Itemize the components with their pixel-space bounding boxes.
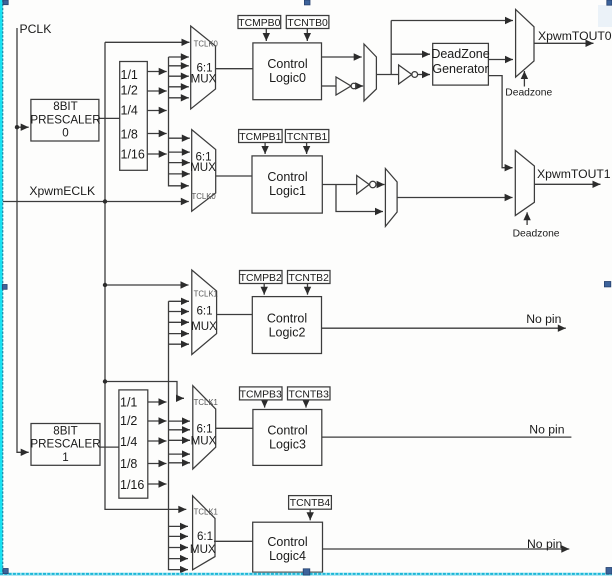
wire PCLK branch to prescaler0 input <box>17 126 29 128</box>
wire divider2 out 1/8 <box>148 463 167 465</box>
wire divider1 out 1/2 <box>147 90 166 92</box>
selection border left cyan band <box>0 0 3 576</box>
wire XpwmTOUT0 output arrow <box>534 42 594 44</box>
inverter C ch1 triangle <box>357 176 370 195</box>
svg-text:Logic2: Logic2 <box>269 326 306 340</box>
svg-text:1/8: 1/8 <box>120 457 137 471</box>
wire MUX1 output to Control Logic1 <box>216 175 252 177</box>
wire bus1 stub to MUX1 in1 <box>169 137 190 139</box>
svg-text:No pin: No pin <box>529 422 564 436</box>
svg-text:1/16: 1/16 <box>120 478 144 492</box>
wire DeadZone out2 down to TOUT1 mux input1 <box>488 76 512 168</box>
wire ch0 mux output junction <box>376 74 398 76</box>
svg-text:Logic3: Logic3 <box>269 438 306 452</box>
wire bus2 stub to MUX4 in4 <box>169 558 189 560</box>
svg-text:Control: Control <box>267 312 307 326</box>
svg-text:1/4: 1/4 <box>121 104 138 118</box>
svg-text:1/1: 1/1 <box>120 396 137 410</box>
svg-text:No pin: No pin <box>526 312 561 326</box>
svg-text:Deadzone: Deadzone <box>513 228 560 239</box>
svg-text:TCLK1: TCLK1 <box>194 289 218 298</box>
wire TCMPB0 arrow into Logic0 <box>265 29 267 42</box>
wire XpwmECLK rail down to MUX4 TCLK <box>105 42 186 509</box>
handle top-middle <box>304 0 310 5</box>
wire ch0 branch to DeadZone input1 <box>391 53 430 55</box>
mux ch1 2:1 select <box>385 169 397 227</box>
handle top-left <box>3 0 8 5</box>
register TCNTB1 <box>285 130 328 143</box>
handle top-right <box>607 0 612 5</box>
wire ch1 direct path to 2:1 mux bottom input <box>336 185 383 212</box>
mux MUX4 6:1 <box>193 496 215 570</box>
block Control Logic4 <box>253 522 323 572</box>
selection border bottom cyan dashes <box>0 573 612 575</box>
svg-text:MUX: MUX <box>191 73 217 86</box>
wire bus2 stub to MUX3 in4 <box>169 453 191 455</box>
svg-text:0: 0 <box>62 127 68 140</box>
mux ch0 2:1 select <box>364 44 376 101</box>
wire ECLK branch to MUX2 TCLK <box>105 284 189 286</box>
wire XpwmTOUT1 output arrow <box>534 183 600 185</box>
wire bus2 stub to MUX2 in3 <box>169 321 190 323</box>
selection border left dark dashes <box>2 0 4 576</box>
mux MUX2 6:1 <box>192 270 217 355</box>
block Control Logic3 <box>253 410 322 466</box>
handle right-middle <box>604 282 610 287</box>
svg-text:MUX: MUX <box>191 435 217 448</box>
wire TCNTB3 arrow into Logic3 <box>305 400 307 408</box>
inverter C bubble <box>370 181 376 187</box>
block 8BIT PRESCALER 1 <box>31 424 100 466</box>
wire prescaler0 output to divider1 <box>98 117 119 119</box>
wire bus2 stub to MUX2 in4 <box>169 333 190 335</box>
mux MUX1 6:1 <box>192 130 216 212</box>
block Control Logic2 <box>252 297 321 354</box>
svg-text:TCLK0: TCLK0 <box>192 192 217 201</box>
register TCNTB3 <box>288 387 331 400</box>
wire MUX2 output to Control Logic2 <box>217 314 253 316</box>
register TCNTB4 <box>289 496 332 510</box>
handle left-middle <box>2 285 7 290</box>
decorative ghost top-right (jpeg halo) <box>598 5 612 27</box>
svg-text:TCNTB1: TCNTB1 <box>287 132 328 143</box>
wire bus1 stub to MUX0 in1 <box>169 56 189 58</box>
svg-text:MUX: MUX <box>190 543 216 556</box>
wire bus2 stub to MUX3 in5 <box>169 462 191 464</box>
wire divider2 out 1/16 <box>148 483 167 485</box>
svg-text:PRESCALER: PRESCALER <box>30 113 100 126</box>
wire bus1 stub to MUX1 in3 <box>169 162 190 164</box>
wire bus2 stub to MUX2 in2 <box>169 311 190 313</box>
svg-text:TCNTB0: TCNTB0 <box>287 18 328 29</box>
wire divider2 out 1/4 <box>148 440 167 442</box>
wire bus2 stub to MUX2 in5 <box>169 343 190 345</box>
wire divider2 out 1/1 <box>148 401 167 403</box>
selection border bottom light band <box>0 573 612 576</box>
svg-text:TCMPB1: TCMPB1 <box>239 132 281 143</box>
register TCMPB0 <box>238 16 281 29</box>
svg-text:1/4: 1/4 <box>120 435 137 449</box>
wire TCNTB0 arrow into Logic0 <box>306 29 308 42</box>
wire prescaler1 output to divider2 <box>100 446 119 448</box>
svg-text:TCLK1: TCLK1 <box>194 398 218 407</box>
svg-text:TCMPB2: TCMPB2 <box>240 273 282 284</box>
svg-text:1/16: 1/16 <box>121 148 145 162</box>
svg-text:XpwmTOUT1: XpwmTOUT1 <box>537 167 611 181</box>
wire ch0 bypass to TOUT0 mux top input <box>391 20 513 22</box>
wire ch0 junction vertical <box>390 21 392 75</box>
wire MUX4 output to Control Logic4 <box>214 540 253 542</box>
wire inverter A output to 2:1 mux bottom input <box>357 85 363 87</box>
wire Logic3 output No pin line <box>322 436 572 438</box>
register TCMPB3 <box>240 387 283 400</box>
wire bus1 stub to MUX0 in5 <box>169 97 189 99</box>
mux MUX3 6:1 <box>193 386 216 469</box>
svg-text:PCLK: PCLK <box>20 22 52 36</box>
handle bottom-right <box>606 568 612 575</box>
svg-text:1/8: 1/8 <box>121 128 138 142</box>
wire TCMPB3 arrow into Logic3 <box>264 400 266 408</box>
svg-text:6:1: 6:1 <box>197 530 213 543</box>
wire bus2 top turn to MUX2 in1 <box>169 300 190 302</box>
handle bottom-middle <box>303 569 310 575</box>
svg-text:Deadzone: Deadzone <box>505 87 552 98</box>
block divider2 1/1-1/16 <box>119 390 148 498</box>
svg-text:Control: Control <box>267 170 307 184</box>
mux output TOUT1 <box>515 150 534 215</box>
wire ch1 mux output to TOUT1 mux input2 <box>397 197 512 199</box>
wire inverter C output to ch1 mux top input <box>377 184 385 186</box>
svg-text:DeadZone: DeadZone <box>431 47 489 61</box>
svg-text:Control: Control <box>267 535 307 549</box>
wire TCNTB1 arrow into Logic1 <box>306 143 308 155</box>
wire divider1 out 1/1 <box>147 71 166 73</box>
block Control Logic0 <box>253 43 322 100</box>
svg-text:No pin: No pin <box>527 537 562 551</box>
svg-text:MUX: MUX <box>190 161 216 174</box>
wire divider2 out 1/2 <box>148 420 167 422</box>
wire bus2 stub to MUX3 in1 <box>169 420 191 422</box>
block Control Logic1 <box>252 156 322 213</box>
node junction ECLK rail at MUX3 branch <box>103 379 107 383</box>
wire XpwmECLK horizontal to MUX1 TCLK <box>3 201 189 203</box>
svg-text:TCLK1: TCLK1 <box>194 507 218 516</box>
wire clock bus2 vertical with turn into MUX4 lowest input <box>169 301 189 569</box>
svg-text:Logic0: Logic0 <box>269 71 306 85</box>
inverter A bubble <box>351 83 357 89</box>
svg-text:Control: Control <box>267 57 307 71</box>
wire PCLK vertical to prescaler1 input <box>17 28 29 452</box>
inverter A ch0 triangle <box>336 77 351 95</box>
wire bus1 stub to MUX1 in2 <box>169 151 190 153</box>
wire TCMPB2 arrow into Logic2 <box>263 284 265 295</box>
svg-text:1/2: 1/2 <box>120 414 137 428</box>
wire inverter B output to DeadZone input2 <box>418 74 430 76</box>
svg-text:TCNTB3: TCNTB3 <box>288 389 329 400</box>
wire TCMPB1 arrow into Logic1 <box>264 143 266 155</box>
svg-text:XpwmTOUT0: XpwmTOUT0 <box>538 29 612 43</box>
svg-text:6:1: 6:1 <box>196 305 212 318</box>
svg-text:Logic1: Logic1 <box>269 184 306 198</box>
wire Logic2 output No pin arrow <box>322 327 566 329</box>
mux output TOUT0 <box>516 9 534 77</box>
wire Logic1 output junction <box>322 184 356 186</box>
mux MUX0 6:1 <box>191 26 216 109</box>
block DeadZone Generator <box>433 43 489 85</box>
svg-text:1/1: 1/1 <box>121 68 138 82</box>
inverter B bubble <box>412 72 418 78</box>
svg-text:1: 1 <box>62 451 68 464</box>
wire Logic0 out2 to inverter A <box>322 85 337 87</box>
svg-text:PRESCALER: PRESCALER <box>30 438 100 451</box>
svg-text:Logic4: Logic4 <box>269 549 306 563</box>
wire bus1 stub to MUX0 in4 <box>169 86 189 88</box>
wire TCNTB4 arrow into Logic4 <box>309 509 311 520</box>
wire MUX3 output to Control Logic3 <box>216 427 253 429</box>
svg-text:TCMPB0: TCMPB0 <box>238 18 280 29</box>
wire bus2 stub to MUX3 in3 <box>169 439 191 441</box>
register TCMPB1 <box>239 130 283 143</box>
register TCMPB2 <box>240 271 283 284</box>
svg-text:TCLK0: TCLK0 <box>194 40 219 49</box>
wire Logic0 out1 to 2:1 mux top input <box>322 56 362 58</box>
register TCNTB2 <box>288 271 331 284</box>
wire bus2 stub to MUX4 in3 <box>169 547 189 549</box>
svg-text:TCNTB4: TCNTB4 <box>290 498 331 509</box>
wire bus2 stub to MUX4 in1 <box>169 525 189 527</box>
wire divider1 out 1/16 <box>147 153 166 155</box>
wire divider1 out 1/8 <box>147 133 166 135</box>
handle bottom-left <box>3 569 8 574</box>
node junction ECLK rail at MUX2 branch <box>103 283 107 287</box>
svg-text:1/2: 1/2 <box>121 84 138 98</box>
wire bus1 stub to MUX0 in2 <box>169 65 189 67</box>
wire Deadzone select arrow into TOUT1 mux <box>526 212 528 225</box>
block 8BIT PRESCALER 0 <box>31 99 99 141</box>
node junction ECLK rail at XpwmECLK line <box>103 199 107 203</box>
wire bus2 stub to MUX4 in2 <box>169 535 189 537</box>
wire MUX0 output to Control Logic0 <box>216 68 253 70</box>
svg-text:Control: Control <box>267 424 307 438</box>
svg-text:XpwmECLK: XpwmECLK <box>29 184 95 198</box>
block divider1 1/1-1/16 <box>120 62 148 171</box>
wire ECLK rail top branch to MUX0 TCLK <box>105 41 190 43</box>
svg-text:MUX: MUX <box>191 320 217 333</box>
wire clock bus1 vertical with turn into MUX1 lowest input <box>169 57 189 186</box>
wire Logic4 output No pin arrow <box>323 548 570 550</box>
wire Deadzone select arrow into TOUT0 mux <box>523 71 525 87</box>
svg-text:TCMPB3: TCMPB3 <box>240 389 282 400</box>
node junction on PCLK at prescaler0 branch <box>15 125 19 129</box>
wire DeadZone out1 to TOUT0 mux input2 <box>488 59 513 61</box>
svg-text:Generator: Generator <box>432 62 488 76</box>
wire TCNTB2 arrow into Logic2 <box>307 284 309 295</box>
inverter B ch0 triangle <box>399 65 412 84</box>
wire bus1 stub to MUX0 in3 <box>169 75 189 77</box>
wire divider1 out 1/4 <box>147 110 166 112</box>
wire bus1 stub to MUX1 in4 <box>169 173 190 175</box>
svg-text:TCNTB2: TCNTB2 <box>288 273 329 284</box>
wire ECLK branch to MUX3 TCLK <box>105 382 184 399</box>
wire bus2 stub to MUX3 in2 <box>169 429 191 431</box>
svg-text:8BIT: 8BIT <box>53 424 77 437</box>
register TCNTB0 <box>286 16 329 29</box>
svg-text:8BIT: 8BIT <box>53 100 77 113</box>
